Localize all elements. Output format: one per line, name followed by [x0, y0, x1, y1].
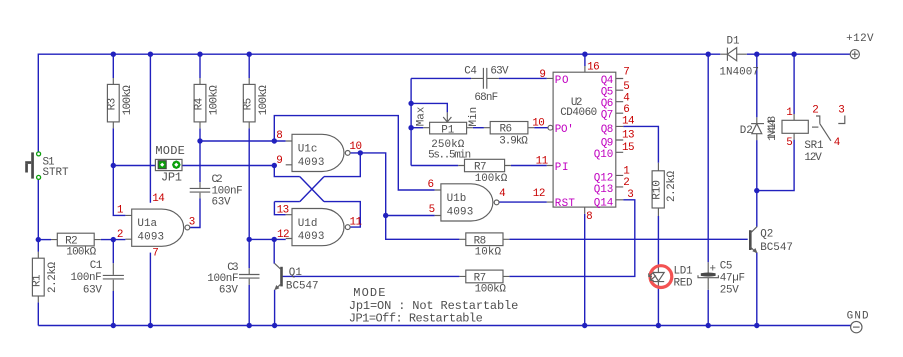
node junction gnd LD1: [656, 323, 661, 328]
resistor R4: [193, 78, 220, 128]
wire R1 bottom to rail: [37, 302, 39, 325]
svg-text:R7: R7: [474, 272, 487, 284]
node junction gnd C5: [706, 323, 711, 328]
svg-text:2: 2: [623, 177, 630, 189]
svg-text:100kΩ: 100kΩ: [209, 85, 221, 115]
svg-text:Q5: Q5: [601, 87, 614, 99]
svg-text:6: 6: [428, 179, 435, 191]
wire Q1 base to lower R7: [282, 275, 459, 277]
svg-text:Q13: Q13: [594, 184, 614, 196]
svg-text:1N4148: 1N4148: [767, 116, 779, 141]
wire Q2 emitter to rail: [756, 252, 758, 325]
potentiometer P1: [415, 106, 480, 161]
node P1 wiper junction: [408, 101, 413, 106]
resistor R5: [243, 78, 270, 128]
resistor R7 lower: [459, 270, 509, 296]
wire D2 bottom to node: [756, 140, 758, 191]
resistor R2: [51, 233, 101, 258]
svg-text:BC547: BC547: [760, 242, 793, 254]
svg-text:25V: 25V: [720, 285, 739, 297]
svg-text:12: 12: [277, 229, 290, 241]
wire Q2 collector: [756, 191, 758, 227]
node junction MODE R3: [111, 163, 116, 168]
node junction rail R3: [111, 52, 116, 57]
wire U1b pin5: [386, 215, 435, 217]
node junction R5/C3: [247, 237, 252, 242]
svg-text:8: 8: [586, 211, 593, 223]
wire latch diag A: [300, 177, 324, 202]
wire R2 left: [38, 239, 51, 241]
wire P1 right to R6: [473, 127, 484, 129]
wire latch upper right to U1c out node: [324, 153, 360, 177]
nand gate U1a: [125, 209, 189, 246]
node junction R4/C2: [197, 138, 202, 143]
svg-text:MODE: MODE: [155, 144, 184, 158]
svg-text:2: 2: [117, 229, 124, 241]
svg-text:14: 14: [152, 193, 165, 205]
svg-text:GND: GND: [847, 311, 869, 323]
svg-text:4093: 4093: [298, 157, 325, 169]
resistor R10: [651, 163, 678, 216]
wire U1a pin14 drop: [149, 54, 151, 203]
node D2/coil/Q2 junction: [754, 188, 759, 193]
svg-text:R1: R1: [32, 274, 44, 287]
node junction gnd U2.8: [582, 323, 587, 328]
svg-text:Q8: Q8: [601, 124, 614, 136]
node junction rail U1a.14: [148, 52, 153, 57]
svg-text:C5: C5: [720, 260, 733, 272]
svg-text:2.2kΩ: 2.2kΩ: [666, 171, 678, 202]
svg-text:8: 8: [276, 130, 283, 142]
wire P1 left terminal: [411, 127, 423, 129]
resistor R7 upper: [458, 159, 511, 185]
svg-text:4: 4: [834, 137, 841, 149]
resistor R3: [107, 78, 134, 128]
svg-text:R7: R7: [474, 162, 487, 174]
wire C5 column top: [707, 54, 709, 262]
svg-text:C3: C3: [227, 262, 238, 274]
nand gate U1b: [435, 184, 499, 221]
transistor Q2: [750, 227, 793, 254]
svg-text:12V: 12V: [804, 152, 822, 164]
node U1c.10 junction: [358, 150, 363, 155]
svg-text:PO: PO: [555, 75, 569, 87]
wire C1 column: [112, 240, 114, 326]
svg-text:1: 1: [117, 205, 124, 217]
svg-text:11: 11: [536, 155, 549, 167]
wire U1b output to U2 RST: [499, 201, 547, 203]
wire Q1 emitter to rail: [274, 290, 276, 326]
svg-text:D1: D1: [727, 36, 741, 48]
svg-text:3.9kΩ: 3.9kΩ: [499, 135, 528, 147]
svg-text:Min: Min: [468, 107, 480, 127]
node junction gnd C3: [247, 323, 252, 328]
wire latch lower left to U1d pin13: [274, 202, 299, 215]
jumper JP1 MODE: [155, 144, 184, 185]
diode D2 1N4148: [740, 116, 780, 141]
svg-text:12: 12: [533, 188, 546, 200]
capacitor C5 polarized: [698, 260, 745, 296]
wire node to R1 top: [37, 240, 39, 252]
svg-text:2: 2: [812, 105, 819, 117]
terminal GND: [847, 311, 869, 333]
svg-text:1: 1: [623, 165, 630, 177]
node junction rail R4: [197, 52, 202, 57]
svg-text:5: 5: [623, 81, 630, 93]
svg-text:4093: 4093: [447, 206, 474, 218]
led LD1 RED: [649, 265, 693, 290]
node junction gnd Q1 emitter: [272, 323, 277, 328]
resistor R1: [32, 252, 60, 303]
wire R5 top drop: [248, 54, 250, 78]
node junction gnd Q2 emitter: [754, 323, 759, 328]
svg-text:U1c: U1c: [298, 144, 318, 156]
svg-text:C4: C4: [464, 66, 477, 78]
svg-text:4: 4: [499, 188, 506, 200]
node junction U1c.8/U1b.6: [272, 138, 277, 143]
wire U1c out to R8: [350, 153, 459, 239]
relay SR1 coil: [782, 114, 824, 164]
wire R2 right to U1a pin2: [101, 239, 126, 241]
svg-text:47µF: 47µF: [720, 272, 745, 284]
wire oscillator node column: [410, 78, 412, 165]
svg-text:RED: RED: [674, 278, 693, 290]
svg-text:LD1: LD1: [674, 266, 693, 278]
svg-text:5: 5: [429, 204, 436, 216]
node junction Q1 collector: [272, 237, 277, 242]
svg-text:3: 3: [627, 189, 634, 201]
node U1b.5 junction: [383, 213, 388, 218]
svg-text:9: 9: [276, 155, 283, 167]
svg-text:63V: 63V: [212, 197, 231, 209]
svg-text:10kΩ: 10kΩ: [475, 246, 502, 258]
resistor R6: [484, 122, 534, 148]
svg-text:Q12: Q12: [594, 172, 614, 184]
wire C2 bottom to U1a output: [190, 198, 200, 227]
node junction gnd U1a.7: [148, 323, 153, 328]
wire R4 top drop: [199, 54, 201, 78]
svg-text:100nF: 100nF: [207, 273, 238, 285]
wire bottom GND rail: [38, 325, 850, 327]
svg-text:9: 9: [539, 69, 546, 81]
svg-text:R5: R5: [243, 98, 255, 111]
svg-text:Q10: Q10: [594, 149, 614, 161]
svg-text:U1d: U1d: [298, 218, 318, 230]
transistor Q1: [274, 263, 318, 292]
svg-text:Q6: Q6: [601, 98, 614, 110]
svg-text:Q9: Q9: [601, 137, 614, 149]
svg-text:7: 7: [623, 67, 630, 79]
node R2/C1/U1a.2 junction: [111, 237, 116, 242]
svg-text:1: 1: [786, 107, 793, 119]
node junction rail SR1 coil: [791, 52, 796, 57]
wire U2 PO to C4: [499, 77, 547, 79]
svg-text:13: 13: [622, 129, 635, 141]
capacitor C3: [207, 262, 259, 296]
wire D2 column top: [756, 54, 758, 117]
svg-text:BC547: BC547: [286, 280, 319, 292]
relay SR1 contact: [816, 116, 845, 141]
nand gate U1d: [286, 209, 350, 246]
switch S1 STRT: [25, 152, 69, 180]
svg-text:2.2kΩ: 2.2kΩ: [47, 262, 59, 293]
wire R4 bottom to C2 top: [199, 128, 201, 182]
node junction rail U2.16: [582, 52, 587, 57]
svg-text:100kΩ: 100kΩ: [122, 85, 134, 115]
capacitor C1: [71, 260, 124, 297]
svg-text:C1: C1: [90, 260, 103, 272]
nand gate U1c: [286, 134, 350, 171]
svg-text:+12V: +12V: [846, 33, 874, 45]
svg-text:D2: D2: [740, 125, 753, 137]
svg-text:Q4: Q4: [601, 75, 614, 87]
svg-text:Q1: Q1: [289, 267, 303, 279]
capacitor C4: [464, 66, 509, 105]
wire S1 bottom to node: [37, 180, 39, 240]
svg-text:6: 6: [623, 104, 630, 116]
node junction rail C5: [706, 52, 711, 57]
svg-text:100nF: 100nF: [71, 272, 102, 284]
svg-text:4093: 4093: [137, 231, 164, 243]
wire U2 pin16 drop: [584, 54, 586, 66]
wire U2 Q8 to R10: [623, 126, 658, 162]
svg-text:13: 13: [277, 205, 290, 217]
wire latch pin9 to cross: [274, 166, 300, 177]
svg-text:100kΩ: 100kΩ: [475, 284, 507, 296]
svg-text:P1: P1: [441, 124, 455, 136]
svg-text:5: 5: [786, 137, 793, 149]
svg-text:1N4007: 1N4007: [719, 66, 759, 78]
svg-text:Max: Max: [415, 106, 427, 126]
node junction rail D2: [754, 52, 759, 57]
svg-text:14: 14: [622, 116, 635, 128]
svg-text:63V: 63V: [219, 284, 238, 296]
svg-text:100kΩ: 100kΩ: [258, 85, 270, 115]
wire R5 column down through C3: [248, 128, 250, 325]
wire U1a pin7 to rail: [149, 253, 151, 326]
diode D1 1N4007: [719, 36, 759, 79]
svg-text:R10: R10: [651, 180, 663, 200]
wire node to upper R7: [411, 165, 458, 167]
wire R3 bottom to MODE node down to U1a pin1: [113, 128, 125, 215]
svg-text:PI: PI: [555, 162, 569, 174]
wire net row to U1c pin8: [200, 140, 286, 142]
svg-text:10: 10: [532, 117, 545, 129]
node junction rail R5: [247, 52, 252, 57]
svg-text:CD4060: CD4060: [560, 107, 597, 119]
svg-text:3: 3: [189, 217, 196, 229]
wire latch lower right to U1d out: [324, 202, 360, 228]
wire top +12V rail: [38, 54, 850, 152]
svg-text:U1a: U1a: [137, 218, 157, 230]
svg-text:11: 11: [350, 217, 363, 229]
wire U1d pin12 row: [249, 238, 286, 240]
svg-text:10: 10: [349, 141, 362, 153]
wire Q1 collector: [273, 239, 275, 263]
wire relay coil pin1 drop: [793, 54, 795, 114]
wire R8 right to Q2 base: [509, 238, 747, 240]
ic U2 CD4060: [547, 66, 623, 214]
svg-text:JP1: JP1: [161, 170, 182, 184]
wire C4 left to column: [411, 77, 471, 79]
node P1 left junction: [408, 125, 413, 130]
svg-text:Q2: Q2: [760, 229, 773, 241]
node junction MODE U1c.9: [272, 163, 277, 168]
wire lower R7 right up to U2 Q14: [509, 200, 634, 277]
svg-text:16: 16: [587, 62, 600, 74]
svg-text:R4: R4: [193, 98, 205, 111]
svg-text:C2: C2: [212, 174, 223, 186]
svg-text:7: 7: [152, 248, 159, 260]
svg-text:RST: RST: [555, 198, 576, 210]
svg-text:3: 3: [838, 105, 845, 117]
svg-text:100nF: 100nF: [212, 185, 243, 197]
wire relay coil pin5 to node: [757, 140, 794, 191]
svg-text:100kΩ: 100kΩ: [66, 247, 96, 259]
wire P1 wiper branch: [411, 103, 447, 112]
svg-text:68nF: 68nF: [474, 92, 498, 104]
node junction gnd C1: [111, 323, 116, 328]
svg-text:4093: 4093: [298, 231, 325, 243]
capacitor C2: [190, 174, 243, 208]
svg-text:Q7: Q7: [601, 110, 614, 122]
wire R10 bottom to LED: [657, 216, 659, 265]
terminal +12V: [846, 33, 874, 59]
svg-text:U1b: U1b: [447, 193, 467, 205]
svg-text:63V: 63V: [83, 285, 102, 297]
svg-text:63V: 63V: [490, 66, 509, 78]
wire latch diag B: [300, 177, 324, 202]
svg-text:100kΩ: 100kΩ: [475, 173, 508, 185]
svg-text:4: 4: [623, 92, 630, 104]
svg-text:Q14: Q14: [594, 198, 614, 210]
node S1/R1/R2 junction: [36, 237, 41, 242]
svg-text:STRT: STRT: [43, 167, 69, 179]
svg-text:JP1=Off: Restartable: JP1=Off: Restartable: [349, 312, 483, 326]
wire R6 right to U2 PO': [534, 127, 548, 129]
wire LED to rail: [657, 288, 659, 325]
svg-text:+: +: [710, 264, 717, 276]
wire MODE row through JP1 to U1c pin9: [113, 165, 274, 167]
svg-text:R3: R3: [107, 98, 119, 111]
wire upper R7 right to U2 PI: [511, 165, 547, 167]
svg-text:MODE: MODE: [353, 286, 385, 300]
svg-text:PO': PO': [555, 124, 574, 136]
wire U2 pin8 to rail: [584, 214, 586, 326]
svg-text:15: 15: [622, 142, 635, 154]
wire U1c pin8 node up and over to U1b pin6: [274, 116, 434, 190]
wire C5 bottom to rail: [707, 290, 709, 326]
wire R3 top drop: [112, 54, 114, 78]
svg-text:R6: R6: [500, 123, 513, 135]
svg-text:SR1: SR1: [804, 140, 824, 152]
resistor R8: [459, 233, 509, 259]
